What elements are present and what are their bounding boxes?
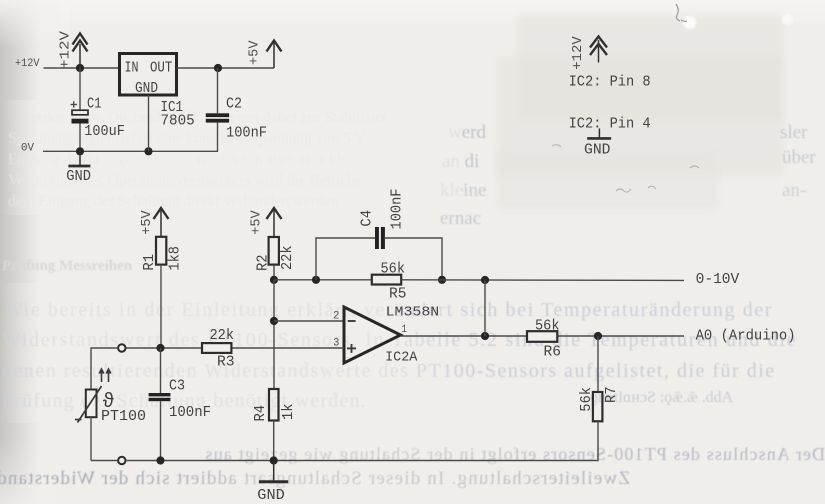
net label +5V (rotated, above R2) bbox=[248, 210, 264, 235]
resistor R4 body bbox=[269, 389, 279, 421]
PT100 diagonal tick bbox=[75, 419, 82, 421]
svg-text:C3: C3 bbox=[169, 378, 185, 394]
node junction bottom rail / R4 / GND bbox=[270, 456, 278, 464]
capacitor C3 plates bbox=[149, 393, 171, 401]
svg-text:100uF: 100uF bbox=[84, 124, 125, 140]
pin number 1 bbox=[402, 324, 408, 336]
svg-text:1k: 1k bbox=[281, 403, 297, 420]
node junction C4 right / R5 right bbox=[438, 276, 446, 284]
net label A0 (Arduino) bbox=[696, 329, 796, 345]
supply symbol +5V (chevron arrow) bbox=[267, 41, 282, 69]
C2 reference designator bbox=[226, 97, 242, 113]
svg-text:R4: R4 bbox=[253, 405, 269, 422]
R2 value 22k (rotated) bbox=[280, 245, 296, 270]
C4 reference designator (rotated) bbox=[359, 210, 375, 227]
PT100 label bbox=[101, 409, 146, 425]
capacitor C2 plates bbox=[206, 113, 229, 122]
svg-text:22k: 22k bbox=[280, 245, 296, 270]
wash fading middle of bottom band bbox=[0, 438, 825, 504]
net label +12V (rotated, top right) bbox=[570, 36, 586, 70]
svg-text:+5V: +5V bbox=[139, 210, 155, 235]
node junction A0 / R7 bbox=[594, 332, 602, 340]
IC1 value 7805 bbox=[161, 114, 195, 130]
wash over left half of middle band (scan fade) bbox=[0, 283, 475, 423]
wire R7 top riser bbox=[597, 336, 599, 392]
resistor R6 body bbox=[527, 331, 557, 342]
ground symbol (bottom) bbox=[259, 461, 288, 482]
svg-text:PT100: PT100 bbox=[101, 409, 146, 425]
wire R5 right to output node bbox=[401, 279, 684, 282]
svg-text:100nF: 100nF bbox=[390, 189, 406, 230]
wire R2 down to feedback node bbox=[273, 265, 275, 280]
node junction output feedback bbox=[481, 276, 489, 284]
IC1 pin label OUT bbox=[150, 61, 172, 77]
R5 reference designator bbox=[389, 287, 407, 303]
wire C1 to 0V rail bbox=[79, 124, 81, 152]
resistor R2 body bbox=[269, 237, 279, 265]
R2 reference designator (rotated) bbox=[256, 254, 272, 271]
R6 reference designator bbox=[544, 344, 562, 360]
wire terminal to PT100 top bbox=[91, 348, 118, 390]
R3 value 22k bbox=[210, 328, 235, 344]
svg-text:GND: GND bbox=[66, 169, 91, 185]
ground label GND (bottom) bbox=[257, 488, 285, 504]
svg-text:IC2: Pin 8: IC2: Pin 8 bbox=[569, 74, 651, 90]
wire IC1 GND pin down to 0V rail bbox=[148, 95, 150, 151]
resistor R3 body bbox=[202, 343, 231, 353]
PT100 diagonal strike bbox=[78, 386, 102, 423]
svg-text:IN: IN bbox=[125, 61, 139, 77]
node junction R1 / R3 / C3 bbox=[156, 344, 164, 352]
svg-text:0V: 0V bbox=[21, 143, 34, 155]
faint show-through book text : bottom band (mirrored show-through) bbox=[142, 444, 825, 465]
svg-text:R3: R3 bbox=[217, 355, 235, 371]
svg-text:OUT: OUT bbox=[150, 61, 172, 77]
ground label GND (PSU) bbox=[66, 169, 91, 185]
svg-text:GND: GND bbox=[584, 142, 611, 158]
IC1 pin label IN bbox=[125, 61, 139, 77]
svg-text:0-10V: 0-10V bbox=[696, 272, 740, 288]
svg-text:22k: 22k bbox=[210, 328, 235, 344]
pin number 3 bbox=[333, 337, 339, 349]
wire PT100 bottom bbox=[90, 417, 92, 460]
sensor PT100 body bbox=[86, 390, 97, 418]
node junction 0V rail / C1 / GND bbox=[76, 147, 84, 155]
op-amp U=IC2A triangle bbox=[344, 307, 401, 363]
node junction 0V rail / IC1 GND bbox=[144, 147, 152, 155]
pasted-figure gray blob (top right) bbox=[517, 16, 783, 120]
svg-text:+5V: +5V bbox=[248, 210, 264, 235]
net label +12V (rotated, at supply arrow) bbox=[58, 30, 74, 69]
faint show-through book text : middle band bbox=[4, 299, 773, 322]
R7 value 56k (rotated) bbox=[579, 387, 595, 412]
R1 value 1k8 (rotated) bbox=[168, 246, 184, 271]
svg-text:R6: R6 bbox=[544, 344, 562, 360]
C1 value 100uF bbox=[84, 124, 125, 140]
wire C4 left branch bbox=[316, 238, 375, 280]
capacitor C1 plates (polarized) bbox=[72, 110, 89, 123]
C1 reference designator bbox=[87, 97, 102, 113]
wire bottom rail bbox=[126, 460, 274, 462]
net label +5V (rotated, above R1) bbox=[139, 210, 155, 235]
wire IC1 OUT to +5V node bbox=[177, 67, 275, 69]
svg-text:56k: 56k bbox=[579, 387, 595, 412]
resistor R5 body bbox=[372, 275, 401, 285]
node junction C4 branch bbox=[312, 276, 320, 284]
node junction output / feedback riser bbox=[481, 332, 489, 340]
R1 reference designator (rotated) bbox=[142, 254, 158, 271]
capacitor C1 polarity plus bbox=[71, 101, 78, 107]
svg-text:C2: C2 bbox=[226, 97, 242, 113]
label IC2: Pin 4 bbox=[569, 116, 651, 132]
svg-text:C4: C4 bbox=[359, 210, 375, 227]
R5 value 56k bbox=[381, 261, 406, 277]
R4 value 1k (rotated) bbox=[281, 403, 297, 420]
net label +12V (input, left) bbox=[15, 58, 40, 70]
C2 value 100nF bbox=[226, 126, 267, 142]
wire C3 riser bbox=[160, 348, 162, 393]
wire +12V input rail bbox=[44, 67, 120, 69]
resistor R7 body bbox=[593, 392, 603, 421]
PT100 temperature arrows bbox=[99, 369, 111, 382]
wire C4 right branch bbox=[385, 238, 442, 280]
svg-text:LM358N: LM358N bbox=[386, 305, 440, 321]
op-amp reference designator IC2A bbox=[385, 350, 418, 366]
scan artifact squiggle bbox=[676, 4, 687, 21]
IC1 pin label GND bbox=[135, 81, 158, 97]
node junction OUT rail / C2 bbox=[214, 64, 222, 72]
wire +12V node down to C1 bbox=[79, 68, 81, 110]
wire op-amp output / A0 line bbox=[401, 335, 685, 337]
C4 value 100nF (rotated) bbox=[390, 189, 406, 230]
R4 reference designator (rotated) bbox=[253, 405, 269, 422]
R3 reference designator bbox=[217, 355, 235, 371]
svg-text:R1: R1 bbox=[142, 254, 158, 271]
svg-text:+12V: +12V bbox=[570, 36, 586, 70]
ground symbol (PSU) bbox=[68, 151, 90, 166]
IC1 reference designator bbox=[161, 100, 184, 116]
ground symbol (IC2 pin 4) bbox=[587, 129, 611, 139]
svg-text:100nF: 100nF bbox=[226, 126, 267, 142]
svg-text:56k: 56k bbox=[535, 318, 560, 334]
wire inverting node vertical (R2 to R4) bbox=[273, 280, 275, 389]
svg-text:1k8: 1k8 bbox=[168, 246, 184, 271]
svg-text:+12V: +12V bbox=[58, 30, 74, 69]
op-amp plus sign (non-inverting) bbox=[347, 344, 356, 353]
supply symbol +5V above R2 bbox=[267, 208, 282, 237]
node junction +12V rail / C1 / supply arrow bbox=[76, 64, 84, 72]
svg-text:56k: 56k bbox=[381, 261, 406, 277]
svg-text:+12V: +12V bbox=[15, 58, 40, 70]
node junction inverting input bbox=[270, 317, 278, 325]
net label 0-10V bbox=[696, 272, 740, 288]
svg-text:GND: GND bbox=[135, 81, 158, 97]
wire PT100 bridge top (pin 3 line) bbox=[126, 347, 344, 349]
svg-text:R5: R5 bbox=[389, 287, 407, 303]
C3 reference designator bbox=[169, 378, 185, 394]
wire bottom rail left bbox=[91, 460, 118, 462]
scan artifact marks bbox=[552, 145, 699, 192]
op-amp part number LM358N bbox=[386, 305, 440, 321]
wire +5V node down to C2 bbox=[217, 68, 219, 113]
feedback line (R5 / 0-10V rail) bbox=[274, 279, 372, 281]
svg-text:IC2: Pin 4: IC2: Pin 4 bbox=[569, 116, 651, 132]
wash over upper band rows bbox=[0, 100, 462, 215]
pin number 2 bbox=[333, 311, 339, 323]
wire R4 down to bottom rail bbox=[273, 421, 275, 461]
resistor R1 body bbox=[156, 237, 166, 265]
svg-text:GND: GND bbox=[257, 488, 285, 504]
wire op-amp pin 2 bbox=[274, 320, 344, 322]
capacitor C4 plates bbox=[375, 227, 385, 249]
ground label GND (IC2 pin 4) bbox=[584, 142, 611, 158]
svg-text:7805: 7805 bbox=[161, 114, 195, 130]
wire 0V rail bbox=[43, 150, 218, 152]
R6 value 56k bbox=[535, 318, 560, 334]
node junction bottom rail / C3 bbox=[156, 456, 164, 464]
svg-text:R2: R2 bbox=[256, 254, 272, 271]
svg-text:A0 (Arduino): A0 (Arduino) bbox=[696, 329, 796, 345]
net label 0V bbox=[21, 143, 34, 155]
terminal circle (sensor top) bbox=[118, 344, 125, 351]
svg-text:+5V: +5V bbox=[247, 40, 263, 65]
terminal circle (sensor bottom) bbox=[118, 457, 125, 464]
svg-text:C1: C1 bbox=[87, 97, 102, 113]
svg-text:100nF: 100nF bbox=[169, 405, 211, 421]
left page-edge shading bbox=[0, 0, 46, 504]
svg-text:2: 2 bbox=[333, 311, 339, 323]
wire R7 down to bottom rail bbox=[274, 421, 598, 460]
C3 value 100nF bbox=[169, 405, 211, 421]
node junction R2 / feedback line bbox=[270, 276, 278, 284]
svg-text:IC2A: IC2A bbox=[385, 350, 418, 366]
net label +5V (rotated, PSU output) bbox=[247, 40, 263, 65]
faint show-through book text : upper band bbox=[20, 109, 387, 127]
wire R1 down to bridge node bbox=[160, 265, 162, 348]
faint heading show-through bbox=[2, 258, 132, 275]
svg-text:R7: R7 bbox=[604, 386, 620, 403]
PT100 theta symbol bbox=[103, 391, 115, 414]
op-amp minus sign (inverting) bbox=[348, 320, 356, 322]
R7 reference designator (rotated) bbox=[604, 386, 620, 403]
label IC2: Pin 8 bbox=[569, 74, 651, 90]
supply symbol +12V (double chevron arrow) bbox=[73, 34, 88, 69]
voltage regulator IC1 box bbox=[120, 54, 177, 96]
wire C3 down to bottom rail bbox=[160, 401, 162, 460]
supply symbol +12V (top right, double chevron) bbox=[590, 37, 607, 63]
wire C2 down to 0V rail corner bbox=[217, 123, 219, 152]
wire feedback riser bbox=[484, 280, 486, 336]
svg-text:1: 1 bbox=[402, 324, 408, 336]
supply symbol +5V above R1 bbox=[154, 208, 169, 237]
